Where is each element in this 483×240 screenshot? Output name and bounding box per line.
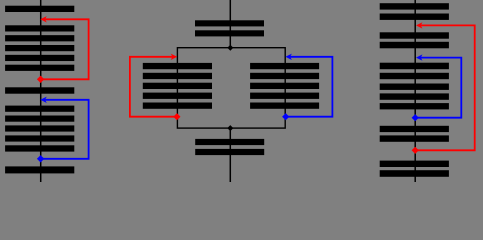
red node (junction), right bank [412, 147, 419, 154]
wire: red terminal loop, middle cell [130, 57, 177, 117]
wire: middle cell bottom feed conductor [229, 128, 231, 182]
capacitor plates: right bank middle group [380, 63, 449, 110]
blue node (junction), middle cell [282, 113, 289, 120]
blue arrowhead, left bank [40, 97, 47, 103]
node junction, middle bottom [227, 125, 233, 131]
capacitor plates: right bank second pair [380, 32, 449, 48]
capacitor plates: left bank upper group [5, 25, 74, 71]
capacitor plates: right bank top pair [380, 3, 449, 20]
wire: middle cell top feed conductor [229, 0, 231, 48]
wire: blue terminal loop, left bank [41, 100, 89, 159]
blue arrowhead, right bank [416, 54, 423, 60]
capacitor plate: left bank bottom electrode [5, 166, 74, 173]
red node (junction), left bank [37, 76, 44, 83]
wire: blue terminal loop, right bank [415, 58, 461, 118]
capacitor plate: left bank top electrode [5, 6, 74, 12]
red arrowhead, left bank [40, 16, 47, 22]
capacitor: top coupling capacitor plates [195, 20, 264, 36]
capacitor plates: right bank third pair [380, 126, 449, 142]
blue node (junction), right bank [412, 114, 419, 121]
red arrowhead, right bank [416, 22, 423, 28]
wire: red terminal loop, left bank [41, 19, 89, 79]
wire: middle cell loop rectangle [177, 48, 285, 128]
capacitor plates: middle left stack [143, 63, 212, 109]
capacitor plate: left bank middle electrode [5, 87, 74, 93]
wire: right bank center conductor [414, 0, 416, 182]
capacitor plates: right bank bottom pair [380, 161, 449, 177]
blue arrowhead, middle cell [285, 54, 292, 60]
red node (junction), middle cell [173, 113, 180, 120]
wire: red terminal loop, right bank [415, 25, 475, 150]
node junction, middle top [227, 45, 233, 51]
capacitor plates: left bank lower group [5, 106, 74, 152]
wire: blue terminal loop, middle cell [286, 57, 333, 117]
capacitor plates: middle right stack [250, 63, 319, 109]
red arrowhead, middle cell [171, 54, 178, 60]
wire: left bank center conductor [40, 0, 42, 182]
capacitor: bottom coupling capacitor plates [195, 139, 264, 155]
blue node (junction), left bank [37, 155, 44, 162]
